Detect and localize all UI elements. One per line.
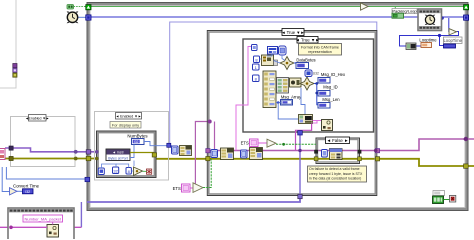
node: subtract before looptime <box>406 43 416 50</box>
svg-text:ETS: ETS <box>241 141 249 146</box>
constant: iteration green const outside loop <box>67 5 74 10</box>
svg-text:ETS: ETS <box>173 186 181 191</box>
wire: purple serial bottom wire <box>87 197 300 203</box>
icon: box with blobs <box>290 78 302 87</box>
svg-text:DataBytes: DataBytes <box>296 57 315 62</box>
constant: green boolean Packing/Loop <box>392 13 404 18</box>
tunnel: green shift register right <box>464 5 469 10</box>
wire: magenta down-left from bundle <box>296 124 312 151</box>
svg-text:Msg_Array: Msg_Array <box>281 95 302 100</box>
tunnels on false case <box>314 150 318 154</box>
svg-text:Msg_Len: Msg_Len <box>322 97 340 102</box>
disable structure 1 <box>95 112 169 181</box>
small false case structure <box>316 137 360 164</box>
svg-text:Convert Time: Convert Time <box>13 184 40 189</box>
label: Number_MA_packet <box>23 215 63 222</box>
icons at bottom of thick frame <box>98 161 151 176</box>
svg-text:Msg_ID: Msg_ID <box>323 85 337 90</box>
node: add star 1 <box>280 57 294 70</box>
svg-text:Format into CAN frame: Format into CAN frame <box>301 45 339 49</box>
bottom filmstrip sequence <box>8 208 74 240</box>
or-gate triangle on green wire <box>361 3 369 10</box>
svg-text:LoopTime: LoopTime <box>443 38 462 43</box>
icon: blue keyboard const <box>268 47 278 55</box>
wire: olive wire mid to right <box>156 157 474 167</box>
node: wait-ms metronome outside loop <box>67 11 79 23</box>
tunnels on outer case edges <box>206 120 468 199</box>
left front-panel pane <box>0 0 16 88</box>
icon: U32 with text <box>305 70 312 77</box>
svg-text:U32: U32 <box>313 71 319 75</box>
node: VISA property node Bytes at Port <box>106 142 172 161</box>
node: VI icon in filmstrip <box>47 225 59 238</box>
svg-text:I32: I32 <box>25 190 30 194</box>
wire: green result to false case <box>276 143 316 145</box>
constant: ETS string inside case <box>241 139 316 147</box>
svg-text:Looptime: Looptime <box>419 38 437 43</box>
tunnel: blue on disable structure right edge <box>167 143 171 147</box>
node: add star 2 <box>300 77 314 90</box>
node: pink serial-config node at far left edge <box>0 149 5 160</box>
wire: blue convert-time wires <box>2 167 9 192</box>
svg-text:Number_MA_packet: Number_MA_packet <box>24 216 61 221</box>
icon: tall unflatten <box>263 71 276 108</box>
false case content <box>314 149 361 161</box>
node: match pattern triangle bottom <box>193 183 203 193</box>
inner case structure <box>243 37 374 133</box>
node: match pattern triangle <box>267 139 276 147</box>
wire: olive U8-array wire left <box>5 158 99 160</box>
label: Format into CAN frame representation <box>299 44 342 56</box>
svg-text:creep forward 1 byte, issue is: creep forward 1 byte, issue is STX <box>309 172 363 176</box>
icon: small blue 8 second <box>253 75 260 82</box>
wire: green const to SR terminal <box>74 6 87 8</box>
top-left: loop inputs <box>67 5 91 24</box>
wire: metronome to blue tunnel <box>78 16 86 18</box>
wire: blue ms-timer wire <box>90 16 442 18</box>
conversion triangle below filmstrip <box>449 29 457 35</box>
icon: small blue 8 <box>254 56 260 63</box>
wire: blue from node to NumBytes <box>130 145 134 158</box>
icon: multirow 2 <box>277 78 289 94</box>
wire: pink string path left side <box>236 47 253 151</box>
svg-text:32: 32 <box>113 168 118 173</box>
sequence filmstrip with wait-multiple metronome <box>418 9 442 31</box>
wire: magenta bundle out to dice <box>313 120 322 122</box>
wires blue around top icons <box>267 54 272 56</box>
icon: replace array subset <box>262 55 274 66</box>
svg-text:◄ True ▼►: ◄ True ▼► <box>281 30 304 35</box>
svg-text:On failure to detect a valid f: On failure to detect a valid frame <box>309 167 360 171</box>
wire: orchid VISA wire inside case <box>207 139 474 151</box>
svg-text:representation: representation <box>308 50 332 54</box>
constant: ETS string bottom <box>173 159 212 192</box>
svg-text:NumBytes: NumBytes <box>127 134 148 139</box>
tunnel: green shift register left <box>86 5 91 10</box>
disable structure 2 (far left) <box>11 115 76 167</box>
svg-text:◄ Instr: ◄ Instr <box>112 151 124 155</box>
outer case structure <box>207 29 376 196</box>
svg-text:◄ False ►: ◄ False ► <box>327 138 349 143</box>
wire: violet VISA rectangle <box>170 22 377 150</box>
tunnel: blue on inner case bottom + vertical purple <box>299 135 301 195</box>
wire: purple inside disable to VISA node <box>97 151 106 153</box>
label: On failure note <box>308 166 367 182</box>
terminal: loop stop condition <box>450 195 456 202</box>
svg-text:in the data (at consistent loc: in the data (at consistent location) <box>309 176 361 180</box>
svg-text:For display only: For display only <box>112 122 139 127</box>
junction squares on left wires <box>9 146 99 161</box>
svg-text:◄ True ▼►: ◄ True ▼► <box>295 38 319 43</box>
icon: small blue 1 <box>253 64 260 70</box>
svg-text:◄Enabled ▼►: ◄Enabled ▼► <box>25 116 49 120</box>
wire: green shift-register wire top <box>90 6 464 8</box>
thick inner frame (sequence) <box>97 131 157 178</box>
wire: magenta inside filmstrip <box>10 226 48 228</box>
svg-text:Bytes at Port: Bytes at Port <box>108 156 127 160</box>
wire: orchid branch top <box>195 122 211 184</box>
wire: green drop to Packing/Loop constant <box>394 7 396 14</box>
wire: olive stub from VISA node <box>130 153 154 157</box>
mid-band wires <box>0 122 474 230</box>
wires to Msg column <box>317 84 318 105</box>
loop bottom right: stop <box>433 191 456 204</box>
tunnel: blue ms tunnel left <box>86 15 91 20</box>
wires around msg array / bundle <box>276 102 281 104</box>
node row: inside case <box>211 148 263 160</box>
NumBytes indicator inside disable structure <box>127 134 148 145</box>
node: dice vi icon <box>322 120 333 131</box>
tunnel: blue right <box>464 15 469 20</box>
wire: magenta bottom filmstrip wire <box>0 226 47 228</box>
icon: small blue const near pink corner <box>252 45 258 51</box>
label: Packing/Loop <box>392 9 417 14</box>
label+indicator: LoopTime (right) <box>444 37 463 44</box>
top-right: timing <box>361 3 469 50</box>
wire: green up inside case edge <box>203 159 211 188</box>
svg-text:◄ Enabled ▼►: ◄ Enabled ▼► <box>116 115 142 119</box>
node: bundle <box>299 115 313 124</box>
node row: outside case (byte array to string etc.) <box>172 146 192 156</box>
bottom-left: convert time <box>10 184 40 195</box>
svg-text:I32: I32 <box>134 140 139 144</box>
wire: purple VISA wire far left <box>5 148 97 152</box>
while loop border <box>87 3 468 211</box>
left pane tunnels <box>13 64 17 78</box>
wire: blue looptime net <box>400 32 459 47</box>
icon: blue scroll const <box>279 46 287 55</box>
svg-text:Msg_ID_Hex: Msg_ID_Hex <box>321 72 346 77</box>
node: wait until next ms multiple metronome <box>425 15 434 24</box>
